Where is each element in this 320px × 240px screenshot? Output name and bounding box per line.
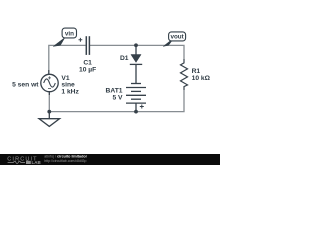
svg-text:atinfoj / circuito limitador: atinfoj / circuito limitador (44, 154, 87, 158)
svg-text:http://circuitlab.com/c8dll3p: http://circuitlab.com/c8dll3p (44, 159, 86, 163)
svg-text:C1: C1 (83, 59, 92, 66)
svg-text:10 kΩ: 10 kΩ (192, 75, 211, 82)
svg-text:vout: vout (170, 34, 184, 41)
svg-text:10 µF: 10 µF (79, 67, 96, 74)
svg-text:1 kHz: 1 kHz (61, 88, 79, 95)
svg-text:LAB: LAB (32, 160, 42, 165)
svg-text:5 sen wt: 5 sen wt (12, 82, 39, 89)
svg-text:D1: D1 (120, 55, 129, 62)
svg-text:5 V: 5 V (112, 95, 123, 102)
svg-text:vin: vin (65, 31, 74, 38)
svg-text:R1: R1 (192, 68, 201, 75)
